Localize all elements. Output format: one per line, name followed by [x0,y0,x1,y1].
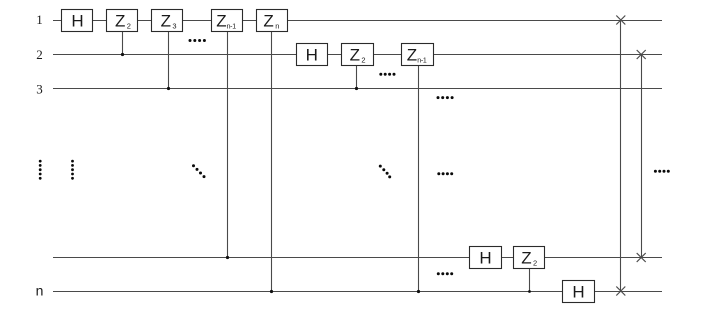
wire qubit 2 [53,54,662,56]
diagonal ellipsis dots center [379,165,391,179]
wire qubit 3 [53,88,662,90]
svg-text:2: 2 [127,22,131,31]
ellipsis dots middle right of control wires [437,172,453,175]
svg-text:Z: Z [263,12,273,31]
gate H qubit n-1 [470,247,502,269]
svg-text:Z: Z [216,12,226,31]
svg-text:2: 2 [36,47,43,62]
control dot on qubit n at x271 [270,290,273,293]
svg-text:1: 1 [36,12,43,27]
svg-text:Z: Z [521,249,531,268]
control wire Zn-1 qubit1 to qubit n-1 [227,32,229,258]
swap cross qubit n-1 [637,253,646,262]
ellipsis dots far right middle [654,170,670,173]
wire qubit n-1 [53,257,662,259]
vertical ellipsis dots left column 1 [39,160,42,180]
svg-text:H: H [572,283,584,302]
gate H qubit2 [297,44,328,66]
svg-text:Z: Z [115,12,125,31]
gate Zn-1 qubit2 [402,44,434,66]
control dot on qubit3 at x168 [167,87,170,90]
control wire Z2 qubit1 to qubit2 [122,32,124,55]
gate Zn-1 qubit1 [212,10,243,32]
control wire Z3 qubit1 to qubit3 [168,32,170,89]
svg-text:H: H [71,12,83,31]
svg-text:2: 2 [361,56,365,65]
ellipsis dots between Z3 and Zn-1 qubit1 [189,39,206,42]
svg-text:2: 2 [533,259,537,268]
svg-text:Z: Z [161,12,171,31]
svg-text:H: H [479,249,491,268]
gate H qubit1 [62,10,93,32]
swap wire qubit1 to qubit n [620,21,622,292]
svg-text:n: n [36,283,44,299]
ellipsis dots below qubit3 [437,96,454,99]
vertical ellipsis dots left column 2 [71,160,74,180]
control dot on qubit n at x418 [417,290,420,293]
gate Z2 qubit2 [342,44,374,66]
control wire Zn qubit1 to qubit n [271,32,273,292]
gate Zn qubit1 [257,10,288,32]
control dot on qubit2 at x122 [121,53,124,56]
control wire Zn-1 qubit2 to qubit n [418,66,420,292]
swap cross qubit n [616,287,625,296]
gate Z2 qubit1 [107,10,138,32]
swap cross qubit2 [637,50,646,59]
control wire Z2 qubit n-1 to qubit n [529,269,531,292]
svg-text:3: 3 [36,82,43,97]
control dot on qubit3 at x356 [355,87,358,90]
gate Z3 qubit1 [152,10,183,32]
control wire Z2 qubit2 to qubit3 [356,66,358,89]
wire qubit 1 [53,20,662,22]
diagonal ellipsis dots left [192,164,206,178]
svg-text:n: n [275,22,279,31]
wire qubit n [53,291,662,293]
svg-text:n-1: n-1 [417,58,427,65]
control dot on qubit n-1 at x228 [226,256,229,259]
svg-text:3: 3 [172,22,176,31]
swap cross qubit1 [616,16,625,25]
ellipsis dots between Z2 and Zn-1 qubit2 [379,73,395,76]
svg-text:n-1: n-1 [227,24,237,31]
gate Z2 qubit n-1 [514,247,545,269]
svg-text:Z: Z [407,46,417,65]
swap wire qubit2 to qubit n-1 [641,55,643,258]
svg-text:H: H [306,46,318,65]
svg-text:Z: Z [350,46,360,65]
ellipsis dots above qubit n [437,272,453,275]
control dot on qubit n at x529 [528,290,531,293]
gate H qubit n [563,281,595,303]
